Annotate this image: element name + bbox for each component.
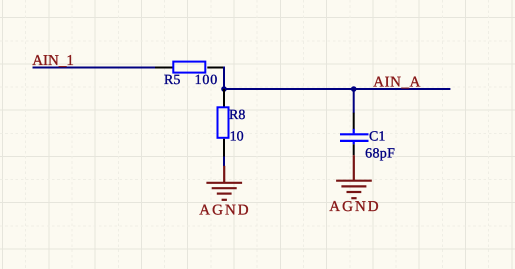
resistor R5 xyxy=(155,62,224,73)
svg-text:AGND: AGND xyxy=(329,199,380,215)
svg-text:AIN_1: AIN_1 xyxy=(32,53,74,69)
svg-text:68pF: 68pF xyxy=(365,146,395,161)
wire below R8 xyxy=(223,157,225,167)
wire below junction to C1 xyxy=(353,89,355,113)
svg-text:R5: R5 xyxy=(164,73,180,88)
svg-text:AIN_A: AIN_A xyxy=(373,75,421,91)
svg-text:C1: C1 xyxy=(369,130,385,145)
svg-text:AGND: AGND xyxy=(199,203,250,219)
power port AGND (left) xyxy=(206,166,242,200)
wire net AIN_1 xyxy=(33,67,156,69)
svg-text:100: 100 xyxy=(195,73,218,88)
wire main horizontal net AIN_A xyxy=(224,88,450,90)
svg-text:10: 10 xyxy=(230,130,244,145)
junction at R8 tap xyxy=(221,86,227,92)
svg-text:R8: R8 xyxy=(229,108,245,123)
wire from R5 to junction xyxy=(223,67,225,90)
power port AGND (right) xyxy=(336,155,372,198)
junction at C1 tap xyxy=(351,86,357,92)
resistor R8 xyxy=(218,89,229,157)
capacitor C1 xyxy=(340,113,369,156)
